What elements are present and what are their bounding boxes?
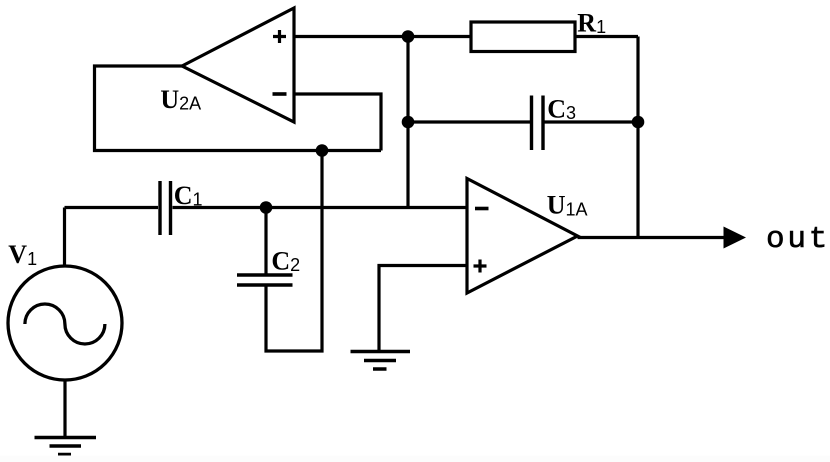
op-amp U1A minus input symbol [475, 207, 489, 211]
wire left rail [406, 37, 409, 208]
svg-text:C1: C1 [174, 181, 203, 210]
wire U2A minus input loop [294, 94, 381, 151]
op-amp U2A plus input symbol [273, 30, 286, 43]
voltage source V1 sine [25, 304, 105, 344]
wire U1A output [578, 236, 728, 239]
svg-text:C2: C2 [271, 247, 300, 276]
resistor R1 [471, 22, 575, 52]
svg-text:U2A: U2A [160, 85, 201, 114]
svg-text:out: out [766, 222, 830, 257]
voltage source V1 [8, 266, 122, 380]
ground below U1A plus input [351, 352, 411, 370]
wire right rail [636, 37, 639, 238]
node junction dot C3 left [402, 116, 415, 129]
node junction dot C3 right [632, 116, 645, 129]
wire C3 right lead [543, 120, 638, 123]
op-amp U2A minus input symbol [273, 92, 287, 96]
wire V1 top lead [63, 208, 66, 267]
node junction dot plus-output rail [402, 30, 415, 43]
bottom screenshot edge band [0, 456, 830, 462]
wire main C1 to U1A minus input [173, 206, 468, 209]
capacitor C3 [532, 96, 544, 151]
wire C2 top lead [264, 208, 267, 276]
wire U1A plus input [379, 266, 467, 352]
output arrow [724, 227, 747, 249]
wire C3 left lead [408, 120, 532, 123]
svg-text:U1A: U1A [547, 191, 588, 220]
wire node to C2 bottom [266, 151, 322, 352]
op-amp U1A [467, 179, 578, 294]
capacitor C1 [160, 181, 171, 235]
capacitor C2 [237, 275, 293, 285]
ground below V1 [35, 438, 97, 455]
node junction dot main wire C2 [260, 201, 273, 214]
svg-text:C3: C3 [547, 95, 576, 124]
svg-text:V1: V1 [8, 240, 37, 269]
wire V1 bottom lead [63, 380, 66, 438]
wire U2A plus output to right rail [294, 35, 638, 38]
op-amp U2A [182, 8, 294, 122]
wire main left segment to C1 [65, 206, 159, 209]
op-amp U1A plus input symbol [474, 260, 487, 273]
svg-text:R1: R1 [577, 9, 606, 38]
node junction dot feedback bottom [316, 144, 329, 157]
wire U2A feedback box [95, 66, 382, 151]
